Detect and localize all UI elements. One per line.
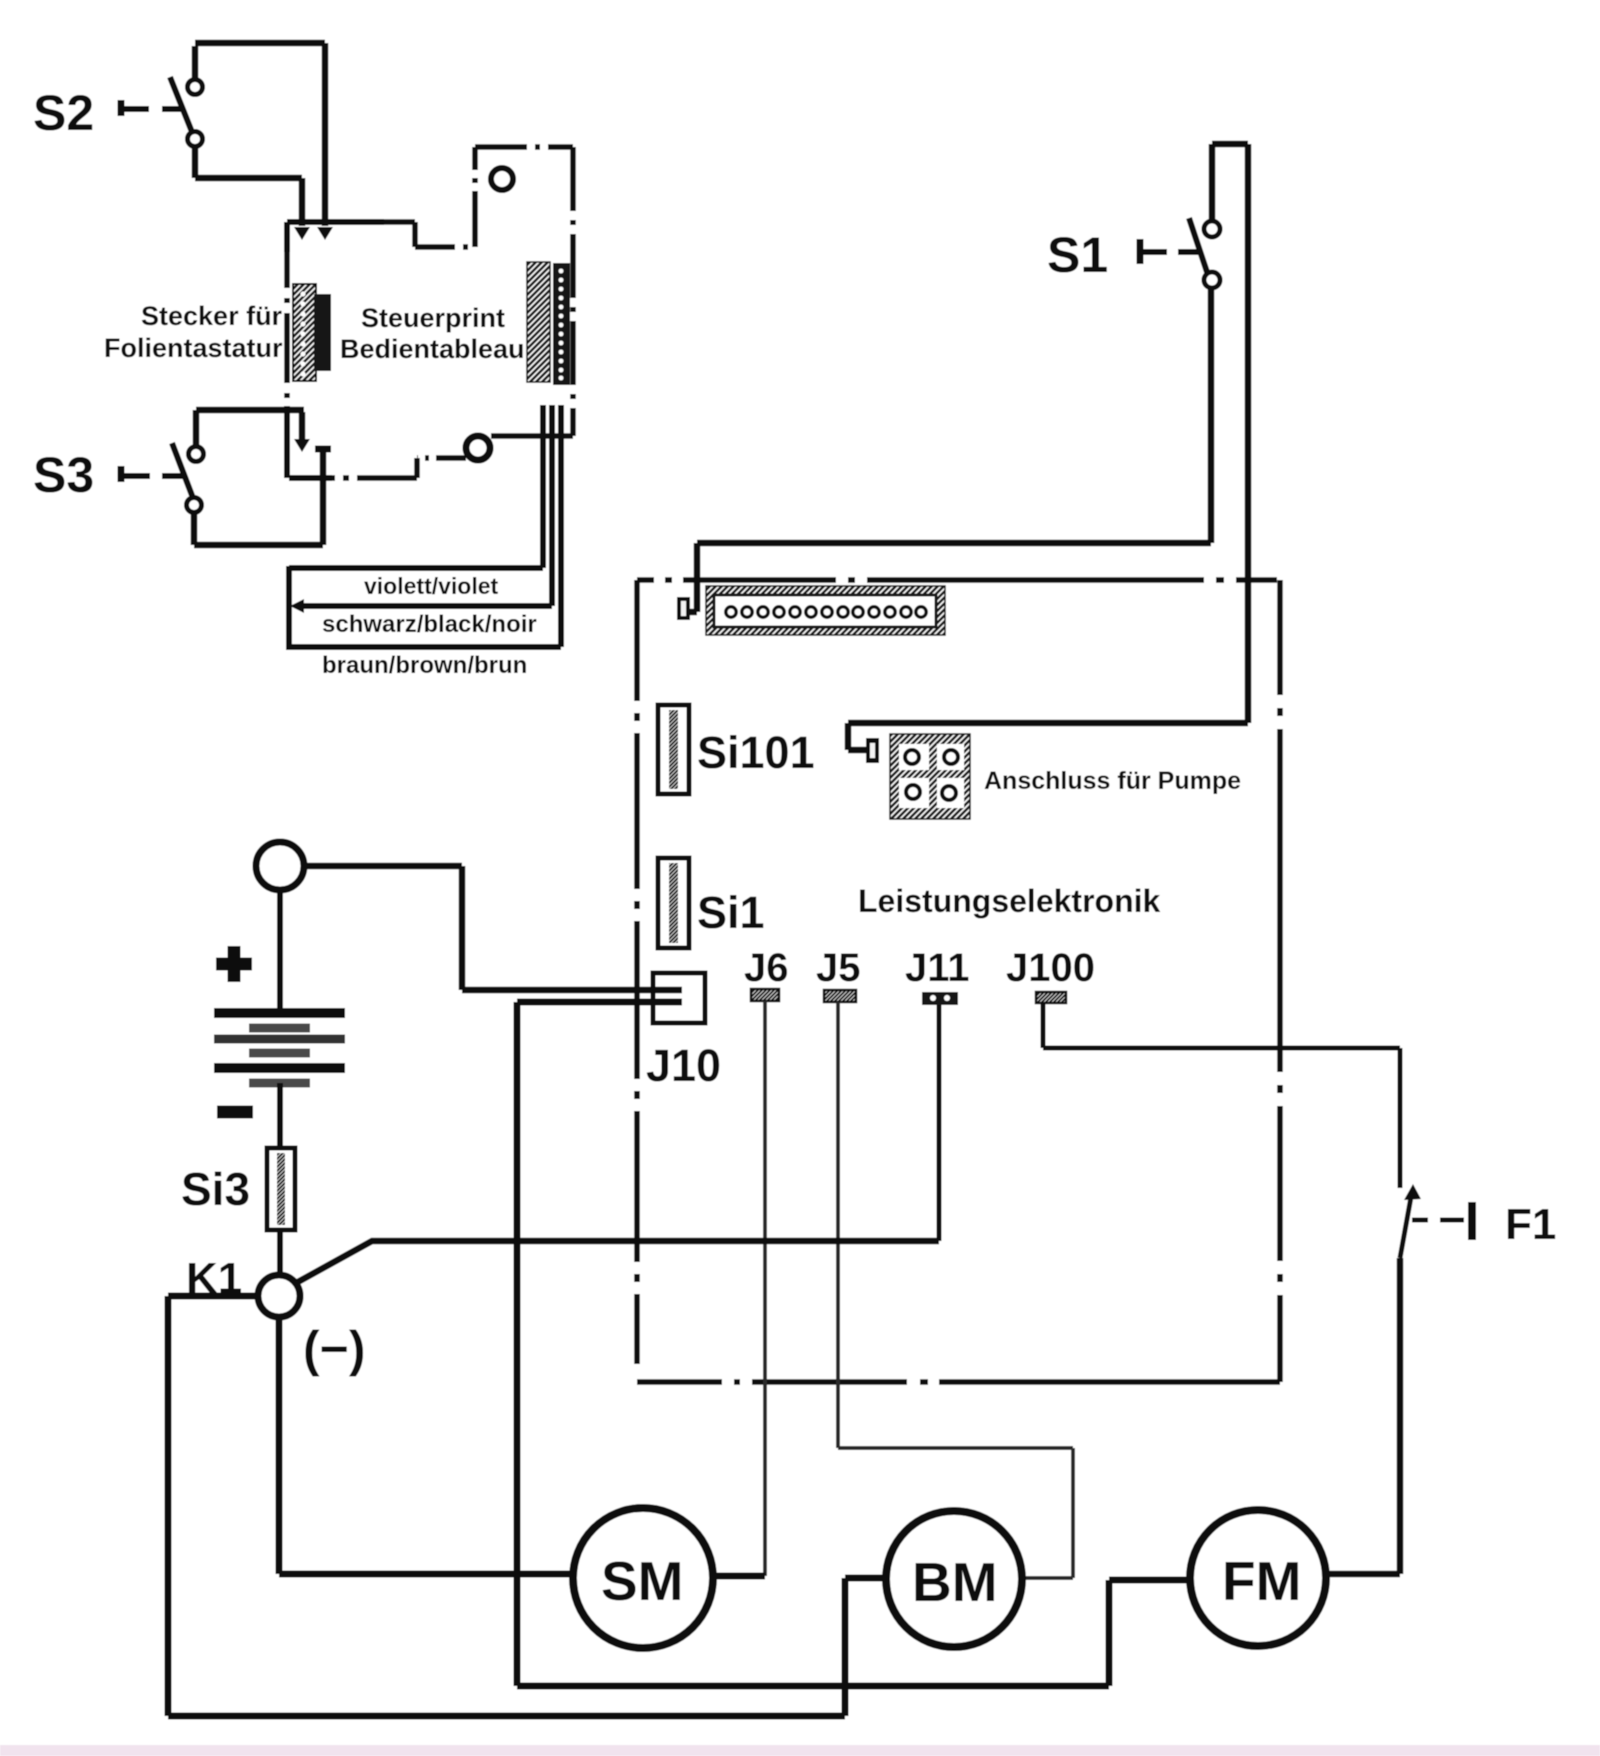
wire J10 lower to FM bbox=[517, 1002, 1192, 1686]
svg-text:Si3: Si3 bbox=[181, 1163, 250, 1215]
F1 arrow bbox=[1404, 1184, 1421, 1200]
terminal arrow bbox=[290, 599, 304, 613]
wire schwarz bbox=[300, 405, 552, 606]
svg-text:schwarz/black/noir: schwarz/black/noir bbox=[322, 611, 537, 638]
svg-text:F1: F1 bbox=[1505, 1200, 1556, 1249]
connector strip bbox=[706, 586, 945, 635]
svg-text:FM: FM bbox=[1222, 1550, 1301, 1612]
connector J5 bbox=[824, 990, 856, 1002]
switch S3 bbox=[121, 443, 204, 513]
node K1 bbox=[258, 1275, 300, 1317]
pin pump lead bbox=[866, 738, 879, 763]
svg-text:(−): (−) bbox=[303, 1321, 366, 1377]
switch S2 bbox=[121, 77, 203, 147]
connector J11 bbox=[922, 992, 958, 1005]
wire K1 left to BM bbox=[168, 1296, 888, 1716]
motor FM bbox=[1190, 1510, 1326, 1646]
wire Si3 to K1 bbox=[277, 1230, 283, 1275]
svg-text:violett/violet: violett/violet bbox=[364, 573, 499, 599]
battery bbox=[214, 890, 345, 1148]
wire K1 lever to J11 bbox=[296, 1241, 939, 1283]
wire battery plus to J10 bbox=[304, 866, 682, 990]
wire K1 bottom to SM bbox=[279, 1317, 575, 1574]
connector J6 bbox=[751, 989, 779, 1001]
fuse Si1 bbox=[658, 858, 689, 948]
svg-text:Anschluss für Pumpe: Anschluss für Pumpe bbox=[984, 767, 1241, 795]
terminal pin arrow bbox=[317, 227, 333, 240]
svg-text:Bedientableau: Bedientableau bbox=[340, 334, 525, 364]
connector J100 bbox=[1036, 992, 1066, 1003]
motor SM bbox=[573, 1508, 713, 1648]
connector Stecker für Folientastatur bbox=[293, 284, 331, 381]
Steuerprint board outline bbox=[287, 147, 573, 478]
switch S1 bbox=[1140, 218, 1220, 288]
terminal pin arrow bbox=[294, 439, 310, 452]
svg-text:SM: SM bbox=[601, 1550, 684, 1612]
connector Bedientableau ribbon bbox=[527, 262, 570, 385]
wire S1 bottom to connector strip bbox=[688, 288, 1211, 612]
wire violett bbox=[289, 405, 543, 568]
svg-text:BM: BM bbox=[912, 1551, 998, 1613]
scan artifact band bbox=[0, 1745, 1600, 1756]
wire left edge label box bbox=[286, 566, 292, 650]
fuse Si101 bbox=[658, 705, 689, 794]
wire braun bbox=[289, 405, 561, 647]
wire J5 to BM bbox=[838, 1002, 1073, 1578]
svg-text:J6: J6 bbox=[744, 946, 789, 990]
svg-text:S1: S1 bbox=[1047, 227, 1108, 283]
Leistungselektronik box bbox=[637, 580, 1280, 1382]
svg-text:Stecker für: Stecker für bbox=[141, 301, 283, 331]
svg-text:Si1: Si1 bbox=[697, 887, 765, 938]
svg-text:Si101: Si101 bbox=[697, 727, 815, 778]
mounting hole bbox=[491, 168, 513, 190]
mounting hole bbox=[466, 436, 490, 460]
wire S3 top bbox=[196, 410, 304, 447]
svg-text:braun/brown/brun: braun/brown/brun bbox=[322, 652, 527, 679]
wire SM right to J6 bbox=[713, 1573, 765, 1580]
wire S3 bottom loop bbox=[194, 452, 323, 545]
svg-text:S2: S2 bbox=[33, 85, 94, 141]
connector Anschluss für Pumpe bbox=[890, 734, 970, 819]
motor BM bbox=[886, 1511, 1022, 1647]
svg-text:J10: J10 bbox=[646, 1040, 721, 1091]
fuse Si3 bbox=[267, 1148, 295, 1230]
wire J11 to K1 lever bbox=[937, 1005, 942, 1241]
svg-text:Folientastatur: Folientastatur bbox=[104, 333, 283, 363]
svg-text:J100: J100 bbox=[1006, 946, 1095, 990]
svg-text:J5: J5 bbox=[816, 946, 861, 990]
wire S2 top loop bbox=[195, 43, 325, 226]
terminal pin bar bbox=[315, 446, 331, 453]
svg-text:Leistungselektronik: Leistungselektronik bbox=[858, 883, 1161, 919]
switch F1 bbox=[1400, 1197, 1472, 1258]
wire J100 to F1 bbox=[1043, 1003, 1400, 1188]
wire S2 bottom bbox=[195, 146, 302, 226]
svg-text:J11: J11 bbox=[905, 946, 970, 990]
pin connector strip bbox=[677, 597, 690, 620]
battery terminal bbox=[256, 842, 304, 890]
wire S1 top to box bbox=[848, 144, 1248, 750]
svg-text:Steuerprint: Steuerprint bbox=[361, 303, 505, 333]
terminal pin arrow bbox=[294, 227, 310, 240]
wire F1 to FM bbox=[1328, 1258, 1400, 1574]
wire J6 to SM bbox=[763, 1001, 767, 1576]
connector J10 bbox=[653, 973, 705, 1023]
svg-text:S3: S3 bbox=[33, 447, 94, 503]
